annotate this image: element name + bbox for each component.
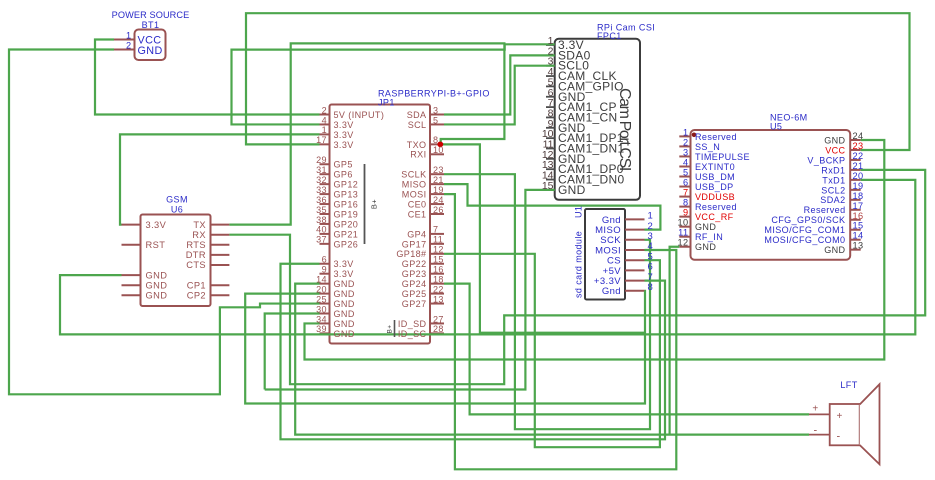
svg-text:24: 24	[433, 195, 444, 205]
svg-text:GSM: GSM	[166, 195, 188, 205]
svg-text:GND: GND	[146, 270, 168, 280]
svg-text:GP25: GP25	[402, 289, 427, 299]
svg-text:U5: U5	[770, 121, 782, 131]
svg-text:37: 37	[316, 235, 327, 245]
svg-text:GP6: GP6	[334, 170, 353, 180]
svg-text:U1: U1	[574, 206, 584, 218]
svg-text:JP1: JP1	[378, 98, 395, 108]
svg-text:10: 10	[433, 145, 444, 155]
svg-text:2: 2	[126, 41, 132, 51]
svg-text:35: 35	[316, 205, 327, 215]
svg-text:23: 23	[433, 165, 444, 175]
svg-text:ID_SD: ID_SD	[398, 319, 427, 329]
svg-text:GP27: GP27	[402, 299, 427, 309]
svg-text:3.3V: 3.3V	[334, 269, 354, 279]
svg-text:GP20: GP20	[334, 219, 359, 229]
svg-text:CP1: CP1	[187, 280, 206, 290]
svg-text:B+: B+	[387, 325, 394, 334]
svg-text:14: 14	[853, 231, 864, 241]
svg-text:6: 6	[683, 178, 689, 188]
svg-text:GND: GND	[146, 291, 168, 301]
svg-text:11: 11	[433, 235, 443, 245]
svg-text:RTS: RTS	[186, 240, 206, 250]
svg-text:GND: GND	[334, 299, 355, 309]
svg-text:2: 2	[322, 105, 327, 115]
svg-text:3: 3	[683, 147, 689, 157]
svg-text:39: 39	[316, 324, 327, 334]
svg-text:CE1: CE1	[408, 209, 427, 219]
svg-text:GP23: GP23	[402, 269, 427, 279]
svg-text:VCC: VCC	[825, 145, 845, 155]
svg-text:29: 29	[316, 155, 327, 165]
svg-text:SDA2: SDA2	[820, 195, 845, 205]
svg-text:6: 6	[322, 255, 327, 265]
svg-text:VDDUSB: VDDUSB	[695, 192, 735, 202]
svg-text:36: 36	[316, 195, 327, 205]
svg-text:GND: GND	[334, 309, 355, 319]
svg-text:13: 13	[433, 294, 444, 304]
svg-text:3.3V: 3.3V	[334, 259, 354, 269]
svg-text:CTS: CTS	[186, 260, 206, 270]
svg-text:GP5: GP5	[334, 160, 353, 170]
svg-text:POWER SOURCE: POWER SOURCE	[112, 10, 190, 20]
svg-text:sd card module: sd card module	[574, 231, 584, 298]
svg-text:U6: U6	[171, 204, 183, 214]
svg-text:1: 1	[126, 30, 132, 40]
svg-text:GND: GND	[146, 280, 168, 290]
svg-text:MOSI/CFG_COM0: MOSI/CFG_COM0	[764, 235, 845, 245]
svg-text:14: 14	[316, 274, 327, 284]
svg-text:4: 4	[322, 115, 327, 125]
svg-text:MISO: MISO	[402, 180, 427, 190]
svg-text:GND: GND	[334, 289, 355, 299]
svg-text:8: 8	[648, 282, 654, 293]
svg-text:8: 8	[433, 135, 438, 145]
svg-text:7: 7	[683, 188, 689, 198]
svg-text:3.3V: 3.3V	[334, 120, 354, 130]
svg-text:Reserved: Reserved	[695, 132, 737, 142]
svg-text:Cam Port CSI: Cam Port CSI	[616, 88, 633, 170]
svg-text:9: 9	[322, 265, 327, 275]
svg-text:38: 38	[316, 215, 327, 225]
svg-text:22: 22	[433, 284, 444, 294]
svg-text:1: 1	[322, 125, 327, 135]
svg-text:17: 17	[853, 201, 864, 211]
svg-text:16: 16	[853, 211, 864, 221]
svg-text:SCL2: SCL2	[821, 185, 845, 195]
svg-text:SCL: SCL	[408, 120, 427, 130]
svg-text:MISO/CFG_COM1: MISO/CFG_COM1	[764, 225, 845, 235]
svg-text:+: +	[837, 411, 843, 422]
svg-text:21: 21	[853, 161, 864, 171]
svg-text:MOSI: MOSI	[402, 190, 427, 200]
svg-text:1: 1	[683, 127, 689, 137]
svg-text:GND: GND	[824, 245, 845, 255]
svg-text:GP26: GP26	[334, 239, 359, 249]
svg-text:8: 8	[683, 198, 689, 208]
svg-text:V_BCKP: V_BCKP	[807, 155, 845, 165]
svg-text:21: 21	[433, 175, 444, 185]
svg-text:12: 12	[433, 245, 444, 255]
svg-text:5V (INPUT): 5V (INPUT)	[334, 110, 385, 120]
svg-text:GP4: GP4	[407, 229, 426, 239]
svg-text:SCLK: SCLK	[401, 170, 426, 180]
svg-text:20: 20	[853, 171, 864, 181]
svg-text:24: 24	[853, 131, 864, 141]
svg-text:GP17: GP17	[402, 239, 427, 249]
svg-text:SDA: SDA	[407, 110, 427, 120]
svg-text:3.3V: 3.3V	[334, 140, 354, 150]
svg-text:GND: GND	[334, 279, 355, 289]
svg-text:RxD1: RxD1	[821, 165, 845, 175]
svg-text:4: 4	[683, 157, 689, 167]
svg-text:13: 13	[853, 241, 864, 251]
svg-text:GND: GND	[558, 183, 586, 197]
svg-text:BT1: BT1	[142, 20, 160, 30]
svg-text:GND: GND	[695, 242, 716, 252]
svg-text:Reserved: Reserved	[695, 202, 737, 212]
svg-text:-: -	[837, 431, 841, 443]
svg-text:9: 9	[683, 208, 689, 218]
svg-text:Gnd: Gnd	[602, 286, 621, 297]
svg-text:GND: GND	[334, 319, 355, 329]
svg-text:ID_SC: ID_SC	[398, 329, 427, 339]
svg-text:USB_DP: USB_DP	[695, 182, 734, 192]
svg-text:EXTINT0: EXTINT0	[695, 162, 735, 172]
svg-text:+: +	[812, 404, 818, 415]
svg-text:2: 2	[683, 137, 689, 147]
svg-text:CFG_GPS0/SCK: CFG_GPS0/SCK	[771, 215, 845, 225]
svg-text:16: 16	[433, 265, 444, 275]
svg-text:-: -	[813, 425, 817, 437]
svg-text:18: 18	[853, 191, 864, 201]
svg-text:3.3V: 3.3V	[146, 220, 167, 230]
svg-text:40: 40	[316, 225, 327, 235]
svg-text:3.3V: 3.3V	[334, 130, 354, 140]
svg-text:25: 25	[316, 294, 327, 304]
svg-text:Reserved: Reserved	[804, 205, 846, 215]
svg-text:17: 17	[316, 135, 327, 145]
svg-text:DTR: DTR	[186, 250, 206, 260]
svg-text:GND: GND	[824, 135, 845, 145]
svg-text:30: 30	[316, 304, 327, 314]
svg-text:GP12: GP12	[334, 180, 359, 190]
svg-text:GP19: GP19	[334, 209, 359, 219]
svg-text:27: 27	[433, 314, 444, 324]
svg-text:USB_DM: USB_DM	[695, 172, 735, 182]
svg-text:GND: GND	[334, 329, 355, 339]
svg-text:GP16: GP16	[334, 199, 359, 209]
svg-text:19: 19	[853, 181, 864, 191]
svg-text:GND: GND	[138, 45, 163, 57]
svg-text:15: 15	[542, 180, 554, 192]
svg-text:20: 20	[316, 284, 327, 294]
svg-text:CE0: CE0	[408, 199, 427, 209]
svg-text:34: 34	[316, 314, 327, 324]
svg-text:28: 28	[433, 324, 444, 334]
svg-text:12: 12	[677, 238, 688, 248]
svg-text:11: 11	[678, 228, 688, 238]
svg-text:TX: TX	[193, 220, 206, 230]
svg-text:5: 5	[683, 168, 689, 178]
svg-text:GND: GND	[695, 222, 716, 232]
svg-text:GP22: GP22	[402, 259, 427, 269]
svg-text:LFT: LFT	[840, 380, 857, 390]
svg-text:19: 19	[433, 185, 444, 195]
svg-text:31: 31	[316, 165, 327, 175]
svg-text:7: 7	[433, 225, 438, 235]
svg-text:GP21: GP21	[334, 229, 359, 239]
svg-text:TIMEPULSE: TIMEPULSE	[695, 152, 750, 162]
svg-text:GP24: GP24	[402, 279, 427, 289]
svg-text:RF_IN: RF_IN	[695, 232, 723, 242]
svg-text:22: 22	[853, 151, 864, 161]
svg-text:5: 5	[433, 115, 438, 125]
svg-text:RXI: RXI	[410, 150, 426, 160]
svg-text:TXO: TXO	[407, 140, 427, 150]
svg-text:23: 23	[853, 141, 864, 151]
svg-text:GP18#: GP18#	[396, 249, 426, 259]
svg-text:26: 26	[433, 205, 444, 215]
svg-text:18: 18	[433, 274, 444, 284]
svg-text:B+: B+	[370, 199, 379, 209]
svg-text:TxD1: TxD1	[822, 175, 845, 185]
svg-text:15: 15	[853, 221, 864, 231]
svg-text:3: 3	[433, 105, 438, 115]
svg-text:RST: RST	[146, 240, 166, 250]
svg-text:33: 33	[316, 185, 327, 195]
svg-text:CP2: CP2	[187, 291, 206, 301]
svg-text:15: 15	[433, 255, 444, 265]
svg-text:10: 10	[677, 218, 688, 228]
svg-text:RX: RX	[192, 230, 206, 240]
svg-text:GP13: GP13	[334, 190, 359, 200]
svg-text:FPC1: FPC1	[597, 31, 622, 41]
svg-text:32: 32	[316, 175, 327, 185]
svg-text:VCC_RF: VCC_RF	[695, 212, 734, 222]
svg-text:SS_N: SS_N	[695, 142, 720, 152]
